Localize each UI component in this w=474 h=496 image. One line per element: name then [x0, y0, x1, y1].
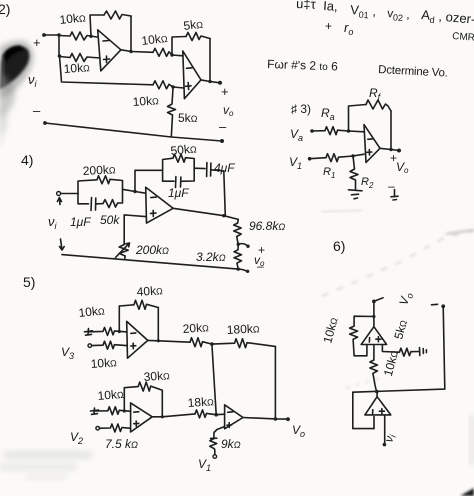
node supply terminal right (circuit 6)	[432, 304, 446, 308]
resistor 10k (V3 input)	[92, 341, 127, 349]
resistor Rf1 (U1 feedback, unlabeled)	[104, 11, 131, 19]
svg-text:u‡τ: u‡τ	[296, 0, 317, 12]
svg-text:2): 2)	[0, 1, 10, 17]
node Vi input terminal (circuit 4)	[57, 192, 62, 205]
svg-text:1μF: 1μF	[168, 186, 189, 200]
svg-text:3.2kΩ: 3.2kΩ	[196, 250, 226, 264]
node junction U6b output rail	[375, 390, 379, 394]
node Vi input terminal (circuit 6)	[381, 431, 398, 446]
wire C3 down to output node	[224, 171, 226, 216]
resistor 40k (U5a feedback)	[119, 300, 158, 309]
value label 10k (R2)	[63, 60, 90, 76]
svg-text:–: –	[219, 119, 227, 134]
ground (output reference)	[388, 179, 398, 200]
wire feedback U5b up	[123, 388, 125, 411]
wire U6b non-inverting down to Vi	[384, 415, 386, 443]
svg-text:+: +	[325, 19, 332, 33]
resistor 7.5k (V2 input)	[100, 424, 131, 432]
op-amp U5b	[131, 403, 153, 432]
wire feedback U5b down to output	[161, 390, 163, 417]
wire feedback U1 up	[90, 15, 104, 36]
value label 18k	[187, 394, 214, 410]
resistor R2 (shunt)	[350, 156, 358, 189]
node supply terminal top (circuit 6)	[372, 298, 383, 304]
wire right terminal down and across	[353, 306, 445, 392]
label Vi (circuit 4)	[48, 214, 58, 231]
value label 7.5k	[105, 437, 138, 451]
svg-text:9kΩ: 9kΩ	[221, 437, 241, 451]
note text: For #'s 2 to 6	[267, 57, 338, 73]
op-amp U6b (rotated, output up)	[365, 397, 391, 415]
value label 9k	[221, 437, 241, 451]
wire junction down	[58, 35, 60, 56]
value label 10k (U5a in)	[78, 303, 106, 320]
problem number 2 label	[0, 1, 10, 17]
value label R1	[323, 166, 335, 180]
faint diagonal streak right-middle	[322, 231, 474, 296]
svg-text:+: +	[33, 35, 41, 50]
wire U1 output	[121, 50, 153, 53]
value label 10k (V3 in)	[90, 355, 117, 371]
resistor R3 10k (U1 out to U2 inverting)	[153, 48, 172, 56]
svg-text:1μF: 1μF	[70, 215, 91, 229]
resistor R5 10k (lower rail to U2 non-inverting)	[153, 81, 173, 89]
value label 50k (feedback)	[170, 141, 198, 158]
value label 1uF (C2)	[168, 186, 189, 200]
capacitor C2 1uF (feedback, bottom branch)	[163, 168, 195, 187]
wire feedback U5a up	[118, 306, 120, 332]
resistor R2 10k (to U1 non-inverting input)	[60, 54, 101, 62]
wire feedback U3 up	[349, 105, 367, 132]
ground (U5b inverting input)	[91, 408, 99, 414]
node R2 junction	[351, 154, 354, 157]
value label 10k (U5b in)	[97, 387, 124, 403]
svg-text:96.8kΩ: 96.8kΩ	[249, 219, 285, 233]
svg-text:Ia,: Ia,	[323, 0, 338, 14]
wire U3 output to terminal	[380, 148, 399, 150]
resistor Rf	[366, 100, 391, 111]
node Vo+ tap (circuit 4)	[237, 243, 266, 268]
op-amp U3	[364, 125, 380, 163]
capacitor C1 1uF with resistor 50k (bottom branch)	[78, 189, 123, 210]
resistor Ra	[312, 127, 349, 135]
resistor R6 5k (shunt to bottom rail)	[168, 88, 176, 137]
resistor 50k (feedback, top branch)	[163, 154, 195, 170]
node U2 output junction	[208, 80, 211, 83]
value label 20k	[182, 320, 209, 336]
op-amp U5c	[225, 405, 243, 429]
node junction B	[58, 54, 62, 58]
note text: Determine Vo.	[378, 64, 448, 80]
wire feedback U3 down to output	[390, 111, 392, 150]
resistor 10k (U5a inverting input)	[89, 327, 127, 335]
resistor 10k (U6a feedback)	[350, 316, 374, 356]
wire bottom rail (circuit 4)	[62, 255, 238, 270]
wire U2 output to terminal	[201, 80, 220, 83]
wire feedback U4 up	[135, 170, 163, 191]
node feedback junction (circuit 4)	[133, 190, 136, 193]
value label 10k (R3)	[141, 31, 169, 48]
node lower input arrow (circuit 4)	[60, 239, 65, 250]
node Vi- input terminal	[33, 103, 47, 125]
value label 200k	[82, 162, 116, 178]
resistor R1 (circuit 3)	[310, 154, 353, 162]
node U5a output junction	[157, 339, 160, 342]
wire into U2 non-inverting input	[173, 87, 184, 88]
resistor 9k (U5c non-inverting to V1)	[210, 427, 225, 455]
op-amp U2	[183, 51, 201, 99]
svg-text:–: –	[257, 259, 264, 273]
node feedback junction U5a	[118, 330, 121, 333]
node V1 input terminal	[289, 155, 311, 171]
node summing junction (20k/180k)	[210, 342, 214, 346]
resistor 3.2k	[234, 244, 242, 269]
svg-text:4): 4)	[21, 152, 33, 168]
svg-text:50k: 50k	[100, 213, 120, 227]
node Va input terminal	[290, 127, 314, 143]
node U5c output junction	[274, 417, 278, 421]
resistor 180k (U5c feedback)	[212, 339, 276, 348]
wire U5c output to terminal	[243, 418, 287, 420]
resistor 30k (U5b feedback)	[124, 382, 162, 391]
wire U4 non-inverting to potentiometer	[124, 215, 146, 245]
problem number 5 label	[23, 274, 35, 290]
value label 10k (series, rotated)	[381, 349, 401, 378]
problem number 6 label	[333, 238, 345, 254]
wire terminal down to U6a output	[373, 301, 375, 326]
node U2 inverting junction	[170, 53, 173, 56]
resistor 10k (U6a to U6b, rotated series)	[370, 346, 378, 392]
ground (U5a inverting input)	[85, 329, 93, 336]
wire feedback U5a down to output	[157, 308, 159, 341]
resistor R1 10k (to U1 inverting input)	[59, 32, 97, 40]
wire bottom rail	[45, 123, 222, 141]
resistor 5k (U6a non-inverting to ground)	[382, 345, 419, 357]
value label 10k (R5)	[132, 93, 159, 109]
wire lower rail from junction B	[60, 56, 154, 85]
node Vo- terminal	[220, 139, 224, 143]
label Rf	[369, 86, 382, 102]
problem number 3 label	[291, 102, 311, 116]
value label 3.2k	[196, 250, 226, 264]
note text: V01	[350, 2, 377, 21]
value label 10k (R1)	[59, 10, 87, 27]
note text: + r0	[325, 19, 353, 37]
svg-text:CMRρ: CMRρ	[452, 31, 474, 44]
node U5c inverting junction	[214, 413, 218, 417]
label Ra	[321, 106, 335, 122]
node feedback junction on R1 wire	[89, 35, 92, 38]
wire U6b output up to rail	[376, 392, 378, 397]
wire into U5c inverting input	[216, 413, 224, 416]
node U2 non-inverting junction	[171, 85, 174, 88]
resistor 20k	[190, 338, 212, 347]
wire input to RC network	[61, 193, 78, 195]
node V2 input terminal	[70, 426, 99, 446]
wire feedback U6b (left loop)	[353, 392, 374, 428]
note text: CMRp	[452, 31, 474, 44]
svg-text:♯ 3): ♯ 3)	[291, 102, 311, 116]
svg-text:200kΩ: 200kΩ	[135, 243, 169, 257]
resistor 18k	[195, 410, 216, 418]
op-amp U4	[146, 187, 173, 223]
resistor 200k (top branch of input network)	[78, 176, 123, 194]
node feedback junction U5b	[123, 409, 126, 412]
node V1 input terminal (circuit 5)	[198, 455, 217, 473]
faint streaks near circuit 6 lower left	[346, 378, 380, 388]
value label R2	[361, 176, 374, 190]
value label 200k (pot)	[135, 243, 169, 257]
problem number 4 label	[21, 152, 33, 168]
wire input to junction	[44, 34, 59, 36]
value label 5k (R4)	[183, 17, 204, 33]
svg-text:5): 5)	[23, 274, 35, 290]
value label 4uF (C3)	[214, 161, 235, 175]
svg-text:5kΩ: 5kΩ	[178, 111, 198, 125]
svg-text:Fωr #'s 2 to 6: Fωr #'s 2 to 6	[267, 57, 338, 73]
node Vo terminal (circuit 5)	[286, 417, 305, 439]
wire U5b output	[152, 414, 195, 417]
node Vo+ terminal	[218, 81, 234, 134]
capacitor C3 4uF (series)	[194, 163, 224, 177]
wire feedback U1 down to output	[130, 16, 132, 52]
resistor R4 5k (U2 feedback)	[186, 33, 210, 41]
op-amp U6a (rotated, output up)	[361, 327, 386, 345]
svg-text:–: –	[33, 103, 41, 118]
wire network to U4 inverting input	[123, 189, 146, 193]
wire summing junction down to U5c inverting	[212, 344, 216, 415]
svg-text:7.5 kΩ: 7.5 kΩ	[105, 437, 138, 451]
value label 96.8k	[249, 219, 285, 233]
wire U4 output	[173, 208, 238, 219]
node junction A	[57, 33, 61, 37]
value label 1uF (C1)	[70, 215, 91, 229]
value label 30k	[143, 368, 170, 384]
value label 5k (R6)	[178, 111, 198, 125]
node feedback junction U6a	[372, 315, 375, 318]
ground (below R2)	[349, 190, 363, 199]
faint smudge rows bottom-left	[4, 451, 92, 459]
node Vo- tap (circuit 4)	[237, 259, 265, 273]
value label 10k (U6a feedback, rotated)	[320, 316, 340, 345]
resistor 96.8k	[234, 219, 242, 244]
wire into U2 inverting input	[172, 54, 183, 57]
note text: Ad over-	[421, 7, 474, 29]
wire U5a output	[148, 340, 190, 342]
wire into U3 inverting input	[349, 130, 365, 133]
bottom-right dark corner	[460, 488, 474, 496]
label Vi	[28, 72, 38, 89]
value label 50k (input branch)	[100, 213, 120, 227]
value label 5k (rotated)	[391, 318, 410, 341]
node Vo terminal (circuit 3)	[390, 149, 409, 176]
node U1 output junction	[129, 50, 132, 53]
wire feedback U2 up	[172, 37, 186, 56]
op-amp U1	[98, 30, 121, 71]
note text: v02	[387, 6, 411, 24]
svg-text:6): 6)	[333, 238, 345, 254]
node V3 input terminal	[61, 344, 92, 361]
node U3 output junction	[389, 148, 392, 151]
value label 40k	[136, 283, 163, 299]
wire into U3 non-inverting input	[353, 154, 364, 156]
node Vi+ input terminal	[33, 33, 46, 50]
wire 180k down to U5c output	[274, 346, 276, 419]
svg-text:+: +	[221, 84, 229, 99]
node U5b output junction	[161, 415, 164, 418]
potentiometer 200k	[116, 243, 130, 260]
note text: cut first line	[296, 0, 338, 14]
ground (circuit 6, rotated)	[420, 348, 427, 356]
node U3 inverting junction	[347, 129, 351, 133]
label Vo (circuit 6, rotated)	[396, 291, 415, 308]
resistor 10k (U5b inverting input)	[95, 407, 131, 415]
node output junction (circuit 4)	[222, 214, 225, 217]
wire feedback U2 down to output	[209, 39, 211, 82]
op-amp U5a	[127, 321, 148, 358]
value label 180k	[226, 321, 260, 337]
